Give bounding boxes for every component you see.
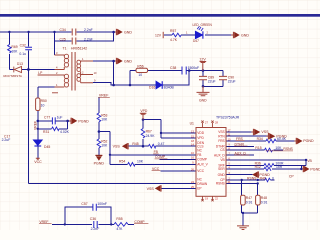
svg-text:10K: 10K — [275, 146, 282, 150]
IC right pin names — [214, 130, 225, 186]
wire FRS R34 row — [226, 140, 296, 142]
wire R56 riser — [129, 71, 131, 86]
wire AUX_D stub — [226, 154, 254, 156]
svg-text:RSNS: RSNS — [216, 182, 225, 186]
wire R69 branch vertical — [8, 32, 10, 70]
red pin stubs at ports — [69, 32, 303, 169]
svg-text:PGND: PGND — [94, 161, 105, 165]
svg-text:R55: R55 — [116, 217, 122, 221]
svg-text:T1: T1 — [63, 46, 67, 50]
resistor R54 (10K) — [128, 163, 135, 167]
svg-text:CS: CS — [220, 148, 224, 152]
svg-text:0.47: 0.47 — [158, 142, 165, 146]
wire output cap strings — [203, 71, 223, 87]
resistor R12 (15R) — [264, 167, 271, 171]
svg-text:47K: 47K — [116, 227, 123, 230]
svg-text:AUX_D: AUX_D — [214, 153, 225, 157]
svg-text:R48: R48 — [261, 196, 267, 200]
svg-text:C36: C36 — [90, 217, 96, 221]
port VSS arrow (EP row) — [155, 185, 161, 191]
svg-text:AUX_V: AUX_V — [197, 163, 208, 167]
wire CP R49 row — [226, 179, 275, 181]
port PGND (GND pin, left arrow) — [252, 171, 258, 177]
power port 12V (output) — [200, 62, 207, 71]
svg-text:1uF: 1uF — [57, 116, 63, 120]
svg-text:R34: R34 — [257, 137, 263, 141]
svg-text:D16: D16 — [149, 85, 155, 89]
capacitor C34 (2.2nF) — [72, 29, 76, 36]
svg-text:CP: CP — [289, 174, 294, 178]
wire VSS pin row — [226, 131, 253, 133]
resistor R53 (10K) vertical — [97, 113, 101, 122]
resistor R67 (24.9K) vertical — [141, 129, 145, 139]
IC top NC stubs — [201, 121, 213, 128]
port PGND (RTN pin) — [269, 133, 276, 139]
svg-text:B340B: B340B — [164, 85, 175, 89]
wire RTN pin row — [226, 135, 268, 137]
wire EP row — [161, 187, 196, 189]
power ground GND symbol (output) — [197, 86, 210, 96]
svg-text:1500uF: 1500uF — [188, 66, 200, 70]
svg-text:4.02K: 4.02K — [60, 130, 70, 134]
svg-text:EP: EP — [197, 187, 201, 191]
port PGND (FRS row) — [296, 138, 302, 144]
svg-text:10K: 10K — [101, 144, 108, 148]
wire VREF bottom row — [52, 223, 134, 225]
power port GND (secondary) — [117, 58, 123, 64]
svg-text:HR051142: HR051142 — [71, 46, 87, 50]
wire C57 loop — [65, 207, 111, 224]
svg-text:R47: R47 — [246, 196, 252, 200]
svg-text:C77: C77 — [44, 116, 50, 120]
wire DTHR stub — [226, 145, 254, 147]
svg-text:12V: 12V — [199, 58, 206, 62]
svg-text:RF07N65STA: RF07N65STA — [3, 74, 21, 78]
resistor R47 (0.91) box — [241, 195, 246, 205]
svg-text:12V: 12V — [155, 33, 162, 37]
resistor R50 (10) box — [36, 98, 40, 111]
svg-text:60.4K: 60.4K — [277, 137, 287, 141]
svg-text:VCC: VCC — [34, 160, 42, 164]
wire SER R12 row — [226, 165, 301, 169]
svg-text:R49: R49 — [260, 176, 266, 180]
wire LED row — [164, 34, 233, 36]
port VSS (VSS pin) — [254, 129, 261, 135]
wire transformer pin3 drop — [54, 41, 56, 55]
port VSS arrow (R45 row) — [122, 143, 128, 149]
svg-text:LP: LP — [38, 71, 43, 75]
svg-text:R56: R56 — [137, 64, 143, 68]
capacitor C89 (22uF) — [199, 76, 207, 79]
svg-text:FRS: FRS — [218, 139, 224, 143]
svg-text:VREF: VREF — [99, 94, 109, 98]
svg-text:VREF: VREF — [39, 220, 48, 224]
svg-text:U1: U1 — [190, 121, 194, 125]
svg-text:VB: VB — [220, 158, 224, 162]
svg-text:DRAIN: DRAIN — [197, 182, 208, 186]
wire drain net vertical — [27, 70, 29, 184]
resistor R69 (10K) — [8, 45, 12, 54]
wire GND junction down to D16 row — [113, 61, 115, 85]
svg-text:C57: C57 — [81, 202, 87, 206]
svg-text:10K: 10K — [11, 49, 18, 53]
svg-text:R31: R31 — [43, 130, 49, 134]
svg-text:FB: FB — [197, 153, 201, 157]
svg-text:VSS: VSS — [113, 145, 121, 149]
svg-text:2.2uF: 2.2uF — [2, 138, 11, 142]
wire RSNS row — [226, 183, 258, 185]
resistor R48 (0.91) box — [256, 195, 261, 205]
resistor R36 (100R) — [264, 164, 274, 168]
svg-text:GND: GND — [124, 60, 132, 64]
wire CS R15 row — [226, 149, 283, 151]
power port GND (C34/C25) — [117, 29, 123, 35]
svg-text:D45: D45 — [44, 145, 50, 149]
svg-text:10: 10 — [138, 73, 142, 77]
svg-text:VSS: VSS — [147, 187, 155, 191]
svg-text:PGND: PGND — [303, 139, 314, 143]
svg-text:R57: R57 — [170, 29, 176, 33]
svg-text:C34: C34 — [60, 28, 66, 32]
svg-text:C38: C38 — [170, 66, 176, 70]
svg-text:4.7K: 4.7K — [170, 38, 178, 42]
LED D47 LED_GREEN — [195, 26, 203, 39]
svg-text:10K: 10K — [101, 118, 108, 122]
svg-text:R54: R54 — [119, 160, 125, 164]
svg-text:0.91: 0.91 — [261, 200, 268, 204]
wire C25 row — [55, 32, 114, 41]
svg-text:10: 10 — [41, 103, 45, 107]
capacitor C57 (100nF) — [93, 204, 96, 211]
svg-text:VDD: VDD — [197, 131, 204, 135]
power port VCC (below D45) — [36, 158, 40, 159]
resistor R55 (47K) — [114, 223, 128, 227]
wire R56 to C38 to output — [130, 70, 223, 72]
svg-text:FRS: FRS — [236, 137, 244, 141]
IC left pin names — [197, 131, 208, 190]
wire C32 branch vertical — [28, 32, 30, 70]
wire GND pin stub — [226, 174, 253, 176]
svg-text:R45: R45 — [132, 142, 138, 146]
diode D16 (B340B) — [156, 81, 162, 89]
port PGND (SER row) — [303, 166, 309, 172]
capacitor C90 (22uF) — [219, 76, 227, 79]
earth ground (bottom right) — [237, 226, 249, 230]
capacitor C38 (1500uF) — [182, 67, 186, 75]
svg-text:DTHR: DTHR — [235, 142, 245, 146]
svg-text:VPD: VPD — [197, 136, 204, 140]
resistor R56 (10) box — [136, 68, 148, 72]
IC U1 TPS23759AJR body — [196, 128, 226, 197]
svg-text:C32: C32 — [20, 43, 26, 47]
svg-text:0: 0 — [272, 176, 274, 180]
wire R31 row — [38, 128, 68, 130]
wire FB branch vertical — [99, 132, 110, 165]
svg-text:2.2nF: 2.2nF — [84, 28, 93, 32]
wire R47 R48 risers and ground — [242, 180, 258, 225]
resistor R49 (0) — [265, 178, 271, 182]
power port GND (LED) — [234, 32, 240, 38]
svg-text:2.2nF: 2.2nF — [91, 227, 100, 230]
svg-text:D47: D47 — [193, 39, 199, 43]
svg-text:VCC: VCC — [152, 167, 160, 171]
wire D16 row — [93, 71, 189, 86]
svg-text:PGND: PGND — [310, 167, 320, 171]
wire R54 AUX_V row — [110, 163, 196, 165]
resistor R15 (10K) — [265, 148, 273, 152]
svg-text:COMP: COMP — [197, 158, 207, 162]
svg-text:LED_GREEN: LED_GREEN — [193, 23, 213, 27]
svg-text:C25: C25 — [60, 37, 66, 41]
wire top rail — [0, 31, 55, 33]
svg-text:COMP: COMP — [134, 220, 145, 224]
capacitor C32 (0.1u) — [25, 47, 32, 50]
power port PGND (C77 row) — [71, 118, 77, 124]
svg-text:RSNS: RSNS — [247, 176, 257, 180]
sheet border top line — [0, 14, 320, 17]
svg-text:VPD: VPD — [140, 109, 148, 113]
svg-text:R12: R12 — [255, 165, 261, 169]
capacitor C36 — [94, 221, 97, 228]
diode D45 (down) — [33, 140, 42, 146]
wire SRF R36 row — [226, 164, 306, 166]
resistor R34 (60.4K) — [266, 139, 276, 143]
IC bottom NC stubs — [201, 196, 213, 201]
svg-text:2.2nF: 2.2nF — [84, 37, 93, 41]
svg-text:D13: D13 — [17, 62, 23, 66]
wire secondary pin1 to GND — [93, 60, 117, 62]
svg-text:GND: GND — [218, 173, 226, 177]
wire FB row — [110, 154, 196, 156]
power ground PGND (below R52) — [95, 155, 102, 161]
svg-text:VCC: VCC — [197, 169, 204, 173]
svg-text:22uF: 22uF — [228, 79, 236, 83]
svg-text:VB: VB — [307, 159, 312, 163]
svg-text:GND: GND — [241, 34, 249, 38]
wire VCC row — [161, 170, 197, 172]
wire pin1 row to R50 — [38, 87, 55, 121]
resistor R31 (4.02K) — [52, 127, 59, 131]
resistor R57 (4.7K) — [172, 33, 181, 37]
wire R67 stem — [142, 120, 144, 147]
wire C77 row — [38, 121, 71, 129]
svg-text:AUX_D: AUX_D — [235, 151, 247, 155]
svg-text:RTN: RTN — [218, 134, 225, 138]
svg-text:COMP: COMP — [155, 155, 166, 159]
IC left pin numbers — [191, 129, 194, 188]
wire down to D45 — [37, 129, 39, 158]
wire VB row — [226, 160, 306, 165]
svg-text:SER: SER — [218, 167, 225, 171]
wire C34 row to GND — [55, 31, 117, 33]
svg-text:PGND: PGND — [78, 119, 89, 123]
svg-text:GND: GND — [199, 98, 207, 102]
svg-text:10K: 10K — [137, 160, 144, 164]
svg-text:GND: GND — [124, 31, 132, 35]
resistor R52 (10K) vertical — [97, 139, 101, 148]
svg-text:TPS23759AJR: TPS23759AJR — [216, 115, 240, 119]
wire VREF divider string — [98, 97, 100, 155]
svg-text:FB: FB — [154, 150, 159, 154]
svg-text:15R: 15R — [276, 165, 283, 169]
svg-text:0.1u: 0.1u — [19, 52, 26, 56]
svg-text:VREF: VREF — [33, 121, 37, 130]
resistor R45 (0.47) — [148, 144, 155, 148]
svg-text:24.9K: 24.9K — [146, 134, 156, 138]
capacitor C77 (1uF) — [52, 117, 55, 124]
diode D13 (RF07N65STA) — [14, 66, 22, 72]
capacitor C25 (2.2nF) — [72, 38, 76, 45]
svg-text:RSNS: RSNS — [283, 147, 293, 151]
wire R45 VSS row — [128, 145, 196, 147]
IC right pin numbers — [228, 128, 231, 184]
svg-text:R15: R15 — [255, 146, 261, 150]
wire VPD feed — [143, 120, 196, 139]
transformer T1 HR051142 — [38, 52, 93, 93]
svg-text:100nF: 100nF — [97, 202, 107, 206]
svg-text:22uF: 22uF — [208, 79, 216, 83]
wire DRAIN row — [28, 183, 196, 185]
wire D13 row — [9, 69, 54, 71]
svg-text:0.91: 0.91 — [246, 200, 253, 204]
wire COMP row — [160, 158, 197, 160]
